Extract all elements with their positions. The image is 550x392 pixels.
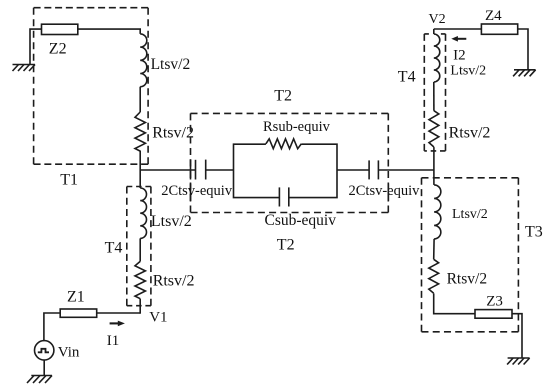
inductor Ltsv/2 (top-right) [434,34,440,82]
wire RC-block loop right half [289,144,337,197]
current arrow I2 [451,36,466,42]
svg-text:Rtsv/2: Rtsv/2 [152,125,194,142]
right vertical wire V2 down to coil [433,29,435,34]
svg-text:Ltsv/2: Ltsv/2 [151,56,191,73]
inductor Ltsv/2 (T3) [434,185,441,239]
svg-text:V1: V1 [149,310,167,326]
T4 dashed box (bottom-left) [127,186,151,188]
svg-text:T4: T4 [398,69,416,86]
svg-text:T2: T2 [277,237,295,254]
capacitor 2Ctsv-equiv (left) plates [190,159,192,179]
inductor Ltsv/2 (T1) [140,34,147,87]
ground (bottom-right) [507,358,529,365]
svg-text:Rtsv/2: Rtsv/2 [447,270,487,287]
wire main bus left segment (node junction with T1/T4 wire) [140,169,195,171]
capacitor 2Ctsv-equiv (right) plates [368,160,370,179]
svg-text:2Ctsv-equiv: 2Ctsv-equiv [349,183,421,199]
source Vin [35,341,54,360]
wire coil to resistor (top-right) [433,82,435,111]
svg-text:2Ctsv-equiv: 2Ctsv-equiv [161,183,233,199]
svg-text:Ltsv/2: Ltsv/2 [452,207,488,222]
ground (bottom-left) [27,376,52,384]
wire RC-block loop left half [234,144,280,197]
T1 dashed box [34,7,149,9]
resistor Z4 [481,24,517,34]
resistor Rtsv/2 (T3) zigzag [429,259,439,293]
svg-text:Rsub-equiv: Rsub-equiv [263,119,331,135]
svg-text:Csub-equiv: Csub-equiv [265,212,337,229]
resistor Rtsv/2 (T1) zigzag [135,112,145,151]
wire Z3 to ground [512,314,522,358]
wire resistor to Z3 [434,293,475,313]
svg-text:I2: I2 [453,48,466,64]
wire resistor down across bus to lower coil [139,151,141,188]
wire resistor down to bus junction and T3 coil [433,147,435,185]
wire coil to resistor (T3) [433,239,435,259]
current arrow I1 [110,321,125,327]
svg-text:Ltsv/2: Ltsv/2 [151,213,192,230]
main bus wire right segment [378,169,434,171]
resistor Z2 [42,24,78,34]
T3 dashed box [422,177,519,179]
wire: T2 right edge solid segment through label [387,184,389,202]
ground (top-left) [13,65,36,72]
wire coil to resistor (bottom-left) [139,238,141,261]
wire ground1 up to Z2 [30,29,42,64]
wire resistor down to V1 node [139,299,141,314]
svg-text:Z2: Z2 [49,41,67,58]
wire Z4 to ground [518,29,528,70]
wire cap to RC block [206,169,234,171]
svg-text:T2: T2 [274,87,292,104]
T2 dashed box [191,112,389,114]
svg-text:Rtsv/2: Rtsv/2 [449,125,491,142]
ground (top-right) [513,70,536,77]
capacitor Csub-equiv plates [278,187,280,206]
svg-text:Z3: Z3 [486,294,503,310]
svg-text:T3: T3 [525,224,543,241]
resistor Z3 [475,310,512,319]
wire Vin to ground [43,360,45,376]
svg-text:Vin: Vin [58,345,80,361]
wire Z1 to Vin [44,313,60,341]
svg-text:T1: T1 [60,172,78,189]
source pulse symbol [38,349,49,353]
wire V2 to Z4 [434,28,482,30]
svg-text:I1: I1 [107,333,120,349]
resistor Rtsv/2 (top-right) zigzag [429,111,439,147]
wire V1 to Z1 [97,312,141,314]
resistor Rsub-equiv (horizontal zigzag) [266,139,301,149]
svg-text:Ltsv/2: Ltsv/2 [450,63,486,78]
svg-text:Z4: Z4 [485,8,502,24]
inductor Ltsv/2 (bottom-left) [140,188,146,238]
svg-text:V2: V2 [429,12,446,27]
svg-text:Rtsv/2: Rtsv/2 [153,273,195,290]
resistor Rtsv/2 (bottom-left) zigzag [135,261,145,298]
svg-text:Z1: Z1 [67,289,85,306]
wire RC block to right cap [337,169,369,171]
svg-text:T4: T4 [105,240,123,257]
wire coil to resistor (T1) [139,87,141,112]
T4 dashed box (top-right) [424,33,445,35]
resistor Z1 [60,309,96,317]
wire Z2 to coil top [78,29,140,34]
